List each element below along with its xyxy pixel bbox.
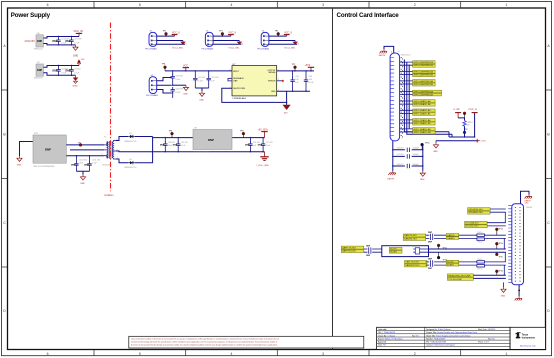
capacitor C4 xyxy=(66,65,82,76)
earth chassis J3 bottom xyxy=(515,285,522,301)
wire gnd tap xyxy=(173,84,186,86)
svg-text:VTMP_IN: VTMP_IN xyxy=(468,109,478,111)
svg-text:TID #: TIDA-010039: TID #: TIDA-010039 xyxy=(378,331,395,334)
svg-text:DNP: DNP xyxy=(258,145,263,147)
svg-text:GPIO-15/ADC-B3: GPIO-15/ADC-B3 xyxy=(413,131,431,134)
power arrow +5V0 xyxy=(477,139,486,143)
wire xyxy=(43,66,79,68)
svg-text:SCITX: SCITX xyxy=(447,262,454,264)
wire xyxy=(116,137,128,141)
svg-text:1000pF: 1000pF xyxy=(413,154,420,156)
connector J3 xyxy=(512,204,532,285)
capacitor C65 xyxy=(304,70,315,92)
svg-text:GND: GND xyxy=(199,99,204,101)
diode D2 xyxy=(125,133,137,143)
ground flag xyxy=(183,41,186,45)
ground I_ISO_REF xyxy=(256,152,270,167)
svg-text:GPIO-06/EPWM-4A: GPIO-06/EPWM-4A xyxy=(413,90,433,93)
svg-text:DNP: DNP xyxy=(173,145,178,147)
module PS1 xyxy=(33,133,66,168)
regulator subcircuit xyxy=(146,64,314,115)
power +V_TMP xyxy=(453,109,462,118)
svg-text:GND: GND xyxy=(183,94,188,96)
capacitor DNP row5a xyxy=(426,259,447,264)
svg-text:SPI-MOSI-ISO: SPI-MOSI-ISO xyxy=(468,209,483,211)
svg-text:R38 0: R38 0 xyxy=(478,259,483,261)
connector J2 xyxy=(390,51,410,141)
svg-text:2.2uF: 2.2uF xyxy=(74,43,80,45)
wire output rail xyxy=(277,70,314,72)
svg-text:1: 1 xyxy=(102,143,103,145)
svg-text:GPIO-01/EPWM-1B: GPIO-01/EPWM-1B xyxy=(413,65,433,67)
wire jog xyxy=(458,118,464,121)
svg-text:GPIO-00/EPWM-1A: GPIO-00/EPWM-1A xyxy=(413,61,433,64)
svg-text:C96 16V: C96 16V xyxy=(253,142,261,144)
svg-text:TZ1-ISO-DNP: TZ1-ISO-DNP xyxy=(448,279,462,281)
wire gnd pin xyxy=(277,91,310,102)
net label row3 xyxy=(400,80,436,86)
svg-text:DNP: DNP xyxy=(160,145,165,147)
net label row1 xyxy=(400,61,436,67)
jumper block J5 xyxy=(145,31,186,51)
svg-text:2: 2 xyxy=(414,3,416,7)
connector J2 pin numbers xyxy=(400,57,402,139)
capacitor C68 xyxy=(392,164,423,168)
earth chassis J3 top xyxy=(521,191,533,204)
wire cap block right xyxy=(422,145,424,171)
svg-text:C61 50V: C61 50V xyxy=(211,77,219,79)
svg-text:C68 2kV: C68 2kV xyxy=(397,164,405,166)
wire xyxy=(135,136,153,138)
capacitor C98 xyxy=(160,137,176,152)
svg-text:Project Title: Vienna Rectifie: Project Title: Vienna Rectifier with Opt… xyxy=(426,331,477,334)
svg-text:R36 0: R36 0 xyxy=(478,232,483,234)
power VCC xyxy=(185,68,187,71)
svg-text:CAN-TX2-ISO: CAN-TX2-ISO xyxy=(405,261,419,264)
svg-text:DCR010505(DNP): DCR010505(DNP) xyxy=(193,152,210,154)
isolator box outline xyxy=(382,246,429,257)
net label row CAN tx xyxy=(403,234,426,240)
svg-text:Texas Instruments and/or its l: Texas Instruments and/or its licensors d… xyxy=(131,338,279,341)
svg-text:GPIO-12/ADC-A2: GPIO-12/ADC-A2 xyxy=(413,119,431,122)
svg-text:1: 1 xyxy=(506,3,508,7)
wire cap pair bottom xyxy=(195,88,208,91)
svg-text:ERROR: ERROR xyxy=(268,81,276,83)
svg-text:C63 50V: C63 50V xyxy=(175,89,183,91)
svg-text:I_ISO+_REF: I_ISO+_REF xyxy=(256,165,270,167)
power VCC_V xyxy=(174,35,176,37)
svg-text:Sheet Title: Power Supply and: Sheet Title: Power Supply and Control Ca… xyxy=(426,334,470,337)
svg-text:Date: 7/6: Date: 7/6 xyxy=(378,344,386,347)
svg-text:/SENSE: /SENSE xyxy=(268,72,276,74)
module U8 xyxy=(193,128,232,154)
wire bus v2 xyxy=(407,62,452,134)
ground xyxy=(199,91,204,101)
capacitor DNP row4b xyxy=(364,251,382,258)
svg-text:SSW-102: SSW-102 xyxy=(34,49,43,51)
wire xyxy=(66,144,104,146)
svg-text:2.2uF: 2.2uF xyxy=(74,72,80,74)
svg-text:SPI-MISO-ISO: SPI-MISO-ISO xyxy=(468,212,483,214)
testpoint TP7 xyxy=(294,66,297,69)
svg-text:C64: C64 xyxy=(295,76,298,78)
svg-text:GPIO-08/ADC-A0: GPIO-08/ADC-A0 xyxy=(413,100,431,103)
transformer T1 xyxy=(102,137,118,167)
svg-text:C98 50V: C98 50V xyxy=(168,142,176,144)
svg-text:TEN 20-2412WIN(DNP): TEN 20-2412WIN(DNP) xyxy=(33,166,55,168)
connector J3 pin numbers xyxy=(514,207,516,282)
testpoint TP6 xyxy=(164,66,167,69)
capacitor C62 xyxy=(193,70,206,88)
svg-text:C4 50V: C4 50V xyxy=(74,68,81,70)
svg-text:licensors do not warrant that: licensors do not warrant that the design… xyxy=(131,344,278,347)
wire xyxy=(157,78,172,94)
svg-text:Orderable:: Orderable: xyxy=(378,328,387,331)
wire bottom rail xyxy=(449,132,475,137)
svg-text:DNP: DNP xyxy=(66,41,71,43)
testpoint TP2 xyxy=(79,144,82,147)
disclaimer note box xyxy=(129,336,364,348)
wire xyxy=(43,37,79,39)
svg-text:2: 2 xyxy=(414,352,416,356)
svg-text:http://www.ti.com: http://www.ti.com xyxy=(520,344,536,347)
testpoint TP13 xyxy=(495,228,502,235)
svg-text:4: 4 xyxy=(231,352,233,356)
TI bug logo xyxy=(515,332,520,338)
capacitor C64 xyxy=(290,70,299,92)
svg-text:CAN-RX2-ISO: CAN-RX2-ISO xyxy=(405,264,419,267)
svg-text:DNP: DNP xyxy=(53,41,58,43)
svg-text:TSW-110-07: TSW-110-07 xyxy=(401,55,411,57)
svg-text:GPIO-14/ADC-A3: GPIO-14/ADC-A3 xyxy=(413,128,431,131)
svg-text:UART-RX-ISO: UART-RX-ISO xyxy=(342,249,356,252)
capacitor C97 xyxy=(258,137,274,152)
wire xyxy=(157,36,185,44)
connector J4 xyxy=(149,77,157,94)
svg-text:TMP61: TMP61 xyxy=(467,122,473,124)
svg-text:Instruments: Instruments xyxy=(522,336,536,339)
svg-text:C67 2kV: C67 2kV xyxy=(397,154,405,156)
svg-text:0.1uF: 0.1uF xyxy=(175,79,181,81)
svg-text:+V TMP: +V TMP xyxy=(453,109,461,111)
svg-text:DNP: DNP xyxy=(37,69,42,72)
svg-text:1000pF: 1000pF xyxy=(413,164,420,166)
svg-text:Isolation: Isolation xyxy=(105,194,115,197)
wire xyxy=(70,149,104,151)
capacitor C66 xyxy=(392,148,423,152)
wire mid rail xyxy=(116,150,265,153)
testpoint TP14 xyxy=(495,242,502,249)
svg-text:CANRX: CANRX xyxy=(447,237,455,240)
svg-text:DNP: DNP xyxy=(71,165,76,167)
wire row4 long xyxy=(429,249,506,252)
power +5V_ISO xyxy=(258,129,269,137)
svg-text:C2 100V: C2 100V xyxy=(74,39,82,41)
svg-text:1000pF: 1000pF xyxy=(413,148,420,150)
wire shutdown loop xyxy=(222,88,287,105)
svg-text:1: 1 xyxy=(506,352,508,356)
wire +5V0 run xyxy=(436,140,479,142)
svg-text:6: 6 xyxy=(47,3,49,7)
capacitor DNP row5b xyxy=(426,264,447,271)
wire xyxy=(135,137,153,163)
testpoint TP10 xyxy=(421,143,431,150)
net label row4 xyxy=(400,90,442,96)
svg-text:3: 3 xyxy=(322,352,324,356)
svg-text:C65: C65 xyxy=(309,76,312,78)
svg-text:GPIO-03/EPWM-2B: GPIO-03/EPWM-2B xyxy=(413,75,433,77)
ground filled xyxy=(283,105,291,115)
capacitor C101 xyxy=(84,155,101,171)
svg-text:SCIRX: SCIRX xyxy=(390,252,397,254)
connector J2 pins xyxy=(390,58,394,136)
svg-text:Texas: Texas xyxy=(522,335,529,337)
earth chassis bottom xyxy=(388,171,396,181)
capacitor C96 xyxy=(245,137,261,152)
svg-text:DNP: DNP xyxy=(208,138,214,142)
svg-text:LP38690-ADJ: LP38690-ADJ xyxy=(233,97,247,100)
svg-text:GPIO-13/ADC-B2: GPIO-13/ADC-B2 xyxy=(413,122,431,125)
svg-text:DNP: DNP xyxy=(53,71,58,73)
svg-text:GPIO-10/ADC-A1: GPIO-10/ADC-A1 xyxy=(413,109,431,112)
diode D3 xyxy=(125,159,137,169)
svg-text:+5V_ISO+: +5V_ISO+ xyxy=(258,129,269,131)
net label row5 right xyxy=(446,260,459,266)
frame zone ticks top xyxy=(94,2,461,9)
svg-text:C60 50V: C60 50V xyxy=(175,76,183,78)
net label row7 xyxy=(400,119,436,125)
wire xyxy=(43,73,75,76)
svg-text:GND: GND xyxy=(73,85,78,87)
wire input xyxy=(20,142,34,157)
svg-text:SCIRX: SCIRX xyxy=(447,265,454,267)
testpoint TP8 xyxy=(463,112,466,118)
svg-text:24Vin/5V: 24Vin/5V xyxy=(25,39,36,43)
ground xyxy=(80,175,85,185)
wire row6 xyxy=(473,275,505,278)
svg-text:PWM-SYNC-ISO-DNP: PWM-SYNC-ISO-DNP xyxy=(448,275,471,277)
svg-text:R37 0: R37 0 xyxy=(478,268,483,270)
resistor R38 xyxy=(459,259,506,263)
wire bus v1 xyxy=(404,60,449,132)
net label SPI xyxy=(468,208,506,214)
svg-text:DNP: DNP xyxy=(66,71,71,73)
wire bus v3 xyxy=(408,65,410,130)
capacitor C99 xyxy=(173,137,189,152)
svg-text:0.1uF: 0.1uF xyxy=(175,92,181,94)
net label row2 xyxy=(400,70,436,76)
svg-text:DNP: DNP xyxy=(37,40,42,43)
svg-text:VCC_IN: VCC_IN xyxy=(74,30,83,33)
svg-text:CAN-TX-ISO: CAN-TX-ISO xyxy=(404,234,417,237)
svg-text:GND: GND xyxy=(80,183,85,185)
capacitor C61 xyxy=(207,70,220,88)
svg-text:MMSD05LT1G: MMSD05LT1G xyxy=(125,141,137,143)
svg-text:warrant that this design will: warrant that this design will meet the s… xyxy=(131,341,277,344)
svg-text:Contact: http://www.ti.com/sup: Contact: http://www.ti.com/support xyxy=(426,344,455,347)
thermistor RT1 xyxy=(463,121,473,127)
ground J3 left xyxy=(501,282,506,297)
capacitor C100 xyxy=(71,155,88,171)
ground xyxy=(73,75,79,87)
testpoint TP16 xyxy=(495,270,502,276)
ground mid xyxy=(433,141,438,153)
svg-text:4: 4 xyxy=(231,3,233,7)
svg-text:5: 5 xyxy=(139,352,141,356)
svg-text:GND: GND xyxy=(271,91,276,93)
testpoint TP1 xyxy=(165,32,168,35)
svg-text:EARTH: EARTH xyxy=(388,178,395,181)
capacitor C60 xyxy=(171,70,184,86)
svg-text:VCCJ_SEL: VCCJ_SEL xyxy=(172,47,184,49)
net label row6 xyxy=(447,274,473,281)
svg-text:DNP: DNP xyxy=(245,145,250,147)
svg-text:10k: 10k xyxy=(467,125,470,127)
wire top rail xyxy=(153,137,265,139)
svg-text:TP13: TP13 xyxy=(499,229,503,231)
svg-text:GND: GND xyxy=(420,179,425,181)
svg-text:MMSD05LT1G: MMSD05LT1G xyxy=(125,167,137,169)
svg-text:Power Supply: Power Supply xyxy=(11,12,51,19)
svg-text:2.2uF: 2.2uF xyxy=(61,72,67,74)
wire cap block left xyxy=(392,141,394,171)
svg-text:TSW-84: TSW-84 xyxy=(526,207,533,209)
testpoint TP12 xyxy=(437,252,447,261)
ground xyxy=(420,171,425,181)
svg-text:TP11: TP11 xyxy=(443,247,447,249)
net label row3 right xyxy=(446,234,459,240)
connector J3 pins xyxy=(508,206,512,283)
svg-text:5: 5 xyxy=(139,3,141,7)
ground xyxy=(17,156,22,166)
wire xyxy=(116,159,128,163)
junction xyxy=(286,102,287,103)
svg-text:SSW-102: SSW-102 xyxy=(34,78,43,80)
svg-text:GPIO-11/ADC-B1: GPIO-11/ADC-B1 xyxy=(413,112,431,115)
testpoint TP9 xyxy=(463,126,467,137)
net label I2C xyxy=(465,221,506,227)
svg-text:SCITX: SCITX xyxy=(390,249,397,251)
svg-text:PEC03SAAN: PEC03SAAN xyxy=(146,94,158,97)
capacitor C3 xyxy=(53,65,69,76)
testpoint TP4 xyxy=(171,132,174,135)
connector J10 xyxy=(34,33,43,51)
svg-text:C100 50V: C100 50V xyxy=(79,160,88,162)
op-amp U7 regulator xyxy=(230,64,279,100)
svg-text:I2C-SDA-ISO: I2C-SDA-ISO xyxy=(465,222,478,225)
wire vcc rail xyxy=(165,70,232,72)
svg-text:Eng: B. McKay / S. Bhardwaj: Eng: B. McKay / S. Bhardwaj xyxy=(378,337,403,340)
svg-text:PEC03SAAN: PEC03SAAN xyxy=(145,48,157,51)
svg-text:6: 6 xyxy=(47,352,49,356)
capacitor C1 xyxy=(53,36,70,46)
wire error stub xyxy=(277,80,282,82)
title block table xyxy=(377,327,511,349)
svg-text:INPUT: INPUT xyxy=(233,71,240,73)
svg-text:8: 8 xyxy=(230,69,231,71)
net label row4 mid xyxy=(389,247,402,253)
svg-text:VCC_V: VCC_V xyxy=(172,32,180,34)
jumper block J7 xyxy=(257,31,298,51)
net label row4 left xyxy=(341,246,364,252)
svg-text:C97 16V: C97 16V xyxy=(266,142,274,144)
svg-text:I2C-SCL-ISO: I2C-SCL-ISO xyxy=(465,226,478,228)
svg-text:VCC: VCC xyxy=(183,64,188,67)
earth chassis top xyxy=(379,46,394,57)
isolation boundary dashed line xyxy=(110,23,112,192)
net label row8 xyxy=(400,128,436,134)
svg-text:TP15: TP15 xyxy=(499,257,503,259)
ground xyxy=(183,85,188,95)
frame zone ticks bottom xyxy=(94,350,461,356)
wire feedback stub xyxy=(228,78,232,81)
svg-text:C99 50V: C99 50V xyxy=(181,142,189,144)
svg-text:GND: GND xyxy=(501,296,506,298)
capacitor C67 xyxy=(392,154,423,158)
frame zone ticks sides xyxy=(2,90,552,267)
svg-text:0.1uF: 0.1uF xyxy=(198,80,204,82)
power +5V0 xyxy=(310,67,312,71)
svg-text:2.2uF: 2.2uF xyxy=(61,43,67,45)
resistor R35 xyxy=(459,238,506,244)
svg-text:R35 0: R35 0 xyxy=(478,242,483,244)
svg-text:GPIO-09/ADC-B0: GPIO-09/ADC-B0 xyxy=(413,103,431,106)
net label row6 xyxy=(400,109,436,115)
power +5V arrow xyxy=(77,59,85,66)
capacitor C2 xyxy=(66,36,83,46)
power VTMP_IN xyxy=(468,109,478,137)
section divider xyxy=(332,8,334,350)
svg-text:Control Card Interface: Control Card Interface xyxy=(337,12,400,19)
net label row5 left xyxy=(405,261,428,267)
svg-text:DNP: DNP xyxy=(45,148,51,152)
svg-text:GPIO-02/EPWM-2A: GPIO-02/EPWM-2A xyxy=(413,70,433,73)
svg-text:EARTH: EARTH xyxy=(379,54,386,57)
wire cap rail xyxy=(76,171,89,174)
svg-text:GPIO-04/EPWM-3A: GPIO-04/EPWM-3A xyxy=(413,80,433,83)
svg-text:3: 3 xyxy=(102,154,103,156)
svg-text:GPIO-05/EPWM-3B: GPIO-05/EPWM-3B xyxy=(413,84,433,86)
resistor R36 xyxy=(459,232,506,236)
svg-text:0.1uF: 0.1uF xyxy=(309,82,315,84)
no-connect dot xyxy=(282,80,284,82)
testpoint TP15 xyxy=(495,252,502,258)
capacitor C63 xyxy=(171,87,184,98)
svg-text:J2: J2 xyxy=(398,51,400,53)
svg-text:Approved:: Approved: xyxy=(378,341,387,344)
svg-text:C101 50V: C101 50V xyxy=(92,160,101,162)
wire xyxy=(66,155,104,157)
TI logo block xyxy=(510,327,545,349)
svg-text:GND: GND xyxy=(525,203,530,205)
svg-text:3: 3 xyxy=(322,3,324,7)
jumper block J6 xyxy=(201,31,242,51)
svg-text:GND: GND xyxy=(17,164,22,166)
svg-text:DNP: DNP xyxy=(84,165,89,167)
isolated module chain xyxy=(17,128,274,185)
svg-text:UART-TX-ISO: UART-TX-ISO xyxy=(342,246,356,249)
net label row5 xyxy=(400,100,436,106)
svg-text:CAN-RX-ISO: CAN-RX-ISO xyxy=(404,237,417,240)
svg-text:CANTX: CANTX xyxy=(447,234,455,237)
testpoint TP11 xyxy=(437,244,446,249)
wire xyxy=(43,44,75,45)
svg-text:GPIO-07/EPWM-4B: GPIO-07/EPWM-4B xyxy=(413,95,433,97)
capacitor DNP row4a xyxy=(364,246,382,251)
svg-text:TP14: TP14 xyxy=(499,243,503,245)
svg-text:+5V: +5V xyxy=(81,59,85,61)
svg-text:C62 50V: C62 50V xyxy=(198,77,206,79)
